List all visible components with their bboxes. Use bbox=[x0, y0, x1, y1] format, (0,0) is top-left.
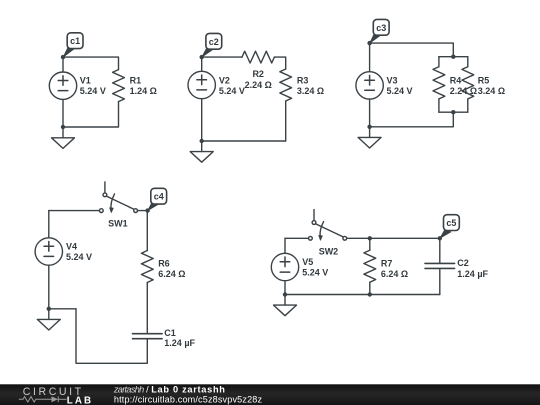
label C1 bbox=[164, 328, 195, 348]
voltage source V1 bbox=[49, 72, 76, 99]
svg-text:zartashh / Lab 0 zartashh: zartashh / Lab 0 zartashh bbox=[113, 385, 226, 395]
wire C2 bottom lead bbox=[439, 269, 441, 295]
svg-text:5.24 V: 5.24 V bbox=[219, 86, 245, 96]
svg-text:5.24 V: 5.24 V bbox=[302, 267, 328, 277]
wire R7 top lead bbox=[369, 238, 371, 250]
resistor R6 bbox=[141, 251, 153, 283]
svg-text:R5: R5 bbox=[478, 76, 490, 86]
CircuitLab logo resistor-diode glyph bbox=[19, 396, 67, 402]
svg-text:6.24 Ω: 6.24 Ω bbox=[158, 269, 185, 279]
capacitor C2 bbox=[425, 263, 455, 268]
wire V3 top lead bbox=[369, 43, 371, 72]
wire parallel bottom branch bbox=[439, 111, 468, 113]
svg-text:1.24 µF: 1.24 µF bbox=[164, 338, 195, 348]
label R4 bbox=[450, 76, 477, 97]
label R7 bbox=[381, 258, 408, 279]
wire ground junction to loop bbox=[49, 308, 76, 310]
wire V5 bottom lead bbox=[284, 281, 286, 295]
svg-text:R3: R3 bbox=[297, 76, 309, 86]
node c2 callout bbox=[200, 33, 222, 59]
node c4 callout bbox=[145, 188, 166, 213]
voltage source V3 bbox=[356, 72, 383, 99]
junction dot circuit 3 parallel bottom bbox=[451, 110, 455, 114]
wire V3 bottom lead bbox=[369, 99, 371, 127]
switch SW2 bbox=[309, 210, 347, 241]
wire R3 bottom lead bbox=[285, 101, 287, 141]
resistor R3 bbox=[280, 69, 292, 101]
svg-text:c5: c5 bbox=[446, 218, 456, 228]
junction dot circuit 3 ground bbox=[367, 125, 371, 129]
wire top rail circuit 5 bbox=[285, 237, 309, 239]
svg-text:R4: R4 bbox=[450, 76, 462, 86]
svg-text:2.24 Ω: 2.24 Ω bbox=[450, 86, 477, 96]
label C2 bbox=[457, 258, 488, 279]
wire top rail circuit 1 bbox=[63, 57, 119, 70]
ground circuit 1 bbox=[52, 127, 75, 148]
label V4 bbox=[66, 241, 92, 261]
svg-text:C2: C2 bbox=[457, 258, 469, 268]
wire R4 leads bbox=[438, 57, 440, 112]
wire C2 top lead bbox=[439, 238, 441, 262]
label R6 bbox=[158, 258, 185, 279]
wire R6 top lead bbox=[146, 211, 148, 251]
svg-text:5.24 V: 5.24 V bbox=[387, 86, 413, 96]
wire top rail circuit 3 bbox=[370, 43, 454, 57]
svg-text:c3: c3 bbox=[376, 23, 386, 33]
svg-text:5.24 V: 5.24 V bbox=[80, 86, 106, 96]
wire R6 to C1 bbox=[146, 283, 148, 334]
wire bottom rail circuit 1 bbox=[63, 102, 119, 127]
wire top rail circuit 2 bbox=[202, 56, 242, 58]
svg-text:1.24 Ω: 1.24 Ω bbox=[130, 86, 157, 96]
wire V1 top lead bbox=[62, 57, 64, 72]
svg-text:R6: R6 bbox=[158, 258, 170, 268]
svg-text:SW1: SW1 bbox=[108, 218, 128, 228]
svg-text:c2: c2 bbox=[209, 37, 219, 47]
svg-text:V1: V1 bbox=[80, 76, 91, 86]
svg-text:LAB: LAB bbox=[67, 395, 93, 405]
svg-text:6.24 Ω: 6.24 Ω bbox=[381, 269, 408, 279]
label R3 bbox=[297, 76, 324, 97]
wire V2 top lead bbox=[201, 57, 203, 71]
voltage source V4 bbox=[35, 238, 62, 265]
svg-text:2.24 Ω: 2.24 Ω bbox=[245, 80, 272, 90]
svg-text:c1: c1 bbox=[70, 36, 80, 46]
junction dot circuit 1 ground bbox=[61, 125, 65, 129]
wire parallel top branch bbox=[439, 56, 468, 58]
wire V2 bottom lead bbox=[201, 99, 203, 141]
junction dot R7 bottom bbox=[368, 292, 372, 296]
label V5 bbox=[302, 257, 328, 277]
svg-text:3.24 Ω: 3.24 Ω bbox=[297, 86, 324, 96]
resistor R5 bbox=[462, 67, 474, 99]
wire R5 leads bbox=[467, 57, 469, 112]
wire top rail circuit 4 bbox=[49, 210, 100, 212]
svg-text:V5: V5 bbox=[302, 257, 313, 267]
label V3 bbox=[387, 76, 413, 96]
svg-text:http://circuitlab.com/c5z8svpv: http://circuitlab.com/c5z8svpv5z28z bbox=[114, 395, 263, 405]
wire V4 top lead bbox=[48, 211, 50, 238]
ground circuit 2 bbox=[190, 141, 213, 162]
wire SW2 to node c5 bbox=[347, 237, 440, 239]
svg-text:SW2: SW2 bbox=[319, 246, 339, 256]
resistor R2 bbox=[242, 51, 274, 63]
svg-text:5.24 V: 5.24 V bbox=[66, 252, 92, 262]
ground circuit 5 bbox=[274, 295, 297, 316]
capacitor C1 bbox=[133, 334, 163, 339]
svg-text:R1: R1 bbox=[130, 76, 142, 86]
label V1 bbox=[80, 76, 106, 96]
svg-text:V2: V2 bbox=[219, 76, 230, 86]
junction dot circuit 3 parallel top bbox=[451, 55, 455, 59]
svg-text:C1: C1 bbox=[164, 328, 176, 338]
voltage source V5 bbox=[271, 253, 298, 280]
wire SW1 to node c4 bbox=[138, 210, 148, 212]
resistor R7 bbox=[364, 250, 376, 282]
svg-text:V4: V4 bbox=[66, 241, 77, 251]
wire R7 bottom lead bbox=[369, 282, 371, 294]
wire V1 bottom lead bbox=[62, 99, 64, 127]
junction dot circuit 5 ground bbox=[283, 292, 287, 296]
wire bottom rail circuit 2 bbox=[202, 140, 286, 142]
wire bottom rail circuit 5 bbox=[285, 294, 440, 296]
label R5 bbox=[478, 76, 505, 97]
ground circuit 4 bbox=[37, 309, 60, 330]
node c5 callout bbox=[438, 215, 460, 241]
junction dot circuit 4 ground bbox=[47, 307, 51, 311]
node c1 callout bbox=[61, 33, 83, 60]
ground circuit 3 bbox=[358, 127, 381, 148]
voltage source V2 bbox=[188, 71, 215, 98]
label V2 bbox=[219, 76, 245, 96]
resistor R1 bbox=[113, 70, 125, 102]
wire bottom rail circuit 3 bbox=[370, 112, 454, 127]
svg-text:R7: R7 bbox=[381, 258, 393, 268]
wire C1 bottom loop bbox=[76, 309, 147, 364]
svg-text:1.24 µF: 1.24 µF bbox=[457, 269, 488, 279]
svg-text:V3: V3 bbox=[387, 76, 398, 86]
svg-text:R2: R2 bbox=[252, 69, 264, 79]
junction dot circuit 2 ground bbox=[200, 139, 204, 143]
label R1 bbox=[130, 76, 157, 96]
wire R2 to R3 bbox=[274, 57, 285, 69]
junction dot R7 top bbox=[368, 236, 372, 240]
node c3 callout bbox=[367, 19, 389, 45]
label R2 bbox=[245, 69, 272, 90]
resistor R4 bbox=[433, 67, 445, 99]
svg-text:3.24 Ω: 3.24 Ω bbox=[478, 86, 505, 96]
wire V5 top lead bbox=[284, 238, 286, 253]
svg-text:c4: c4 bbox=[154, 192, 164, 202]
wire V4 bottom lead bbox=[48, 265, 50, 309]
switch SW1 bbox=[99, 182, 137, 213]
